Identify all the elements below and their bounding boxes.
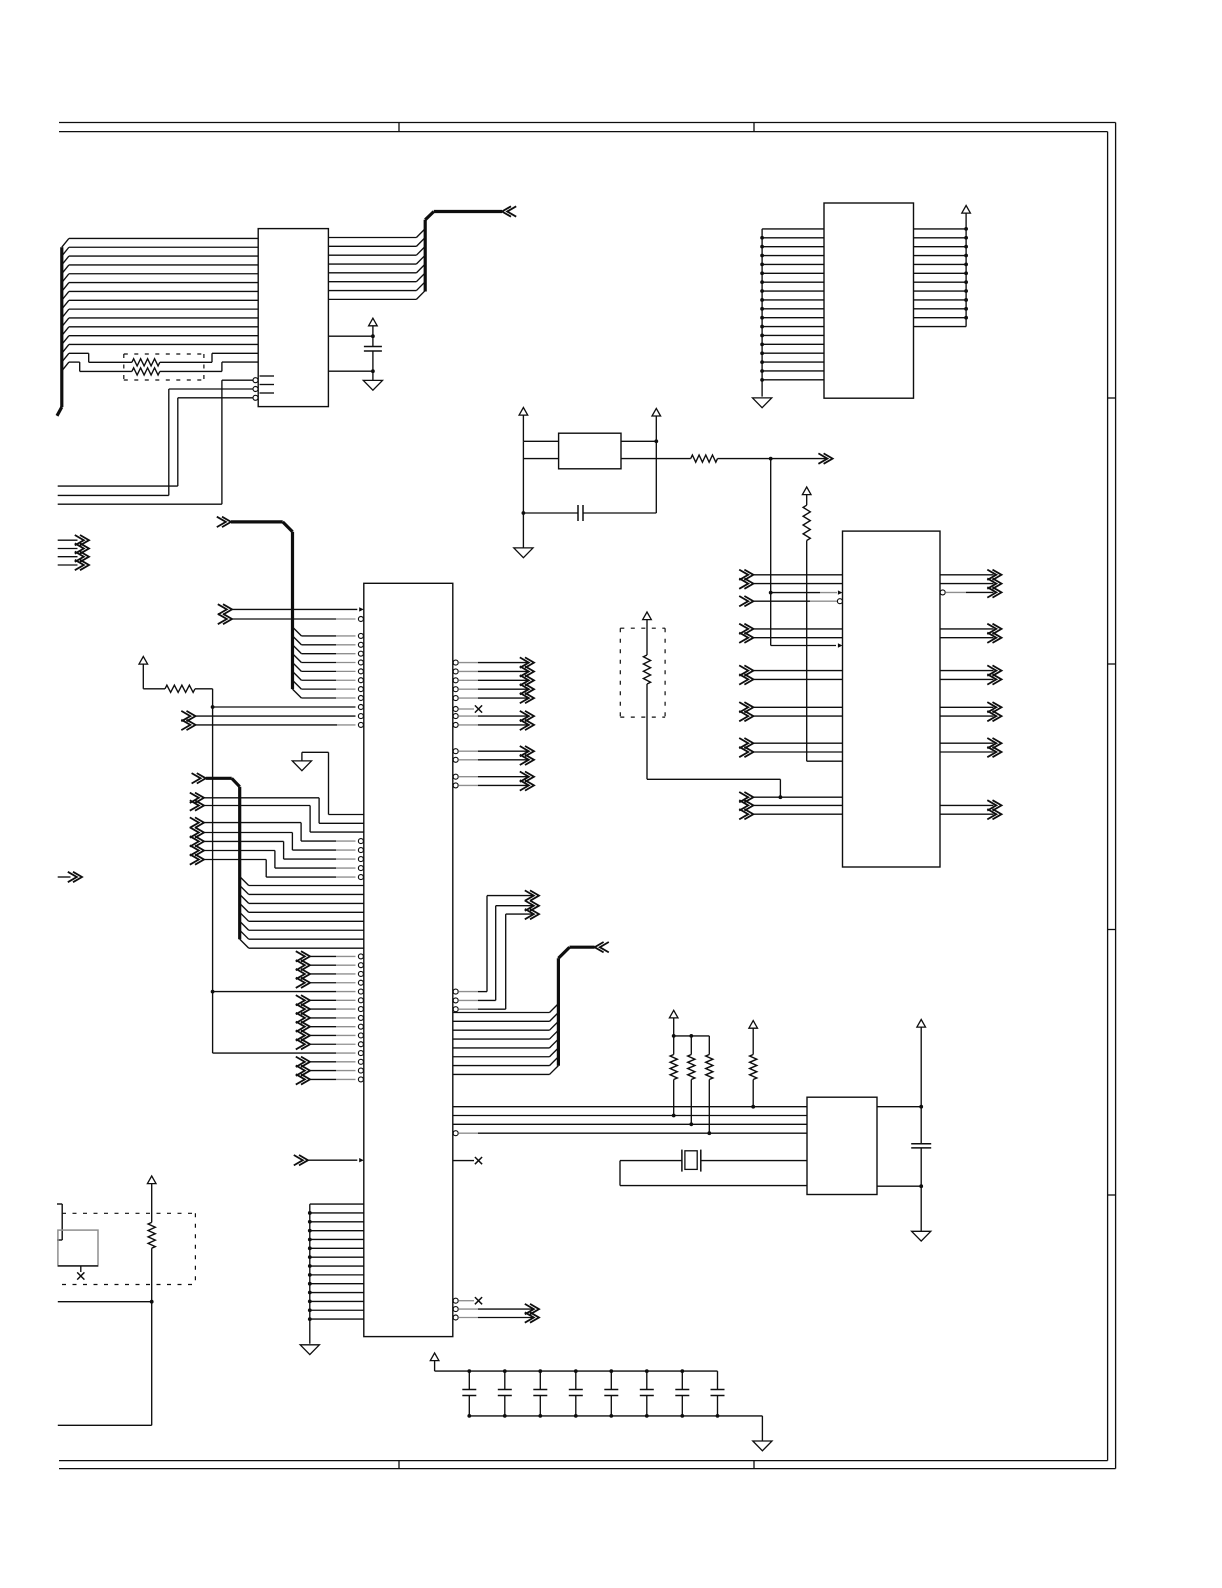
ground GND7 — [753, 1441, 772, 1451]
power arrow VP9 — [802, 487, 811, 505]
wire W10 (X1 right top to supply) — [621, 439, 658, 513]
capacitor C11 — [711, 1390, 725, 1396]
wires W20 (chevron group to U3 lower-left) — [296, 951, 364, 1084]
IC U2 — [824, 203, 914, 398]
capacitor C3 — [911, 1144, 931, 1148]
power arrow VP2 — [962, 206, 971, 214]
ground GND2 — [753, 398, 772, 408]
wire W40 (R10 to U4 pin line) — [647, 684, 780, 797]
ground GND5 — [300, 1345, 319, 1355]
wires W19 (staircase chevrons to U3) — [190, 793, 364, 880]
wire W16 (node down to U3 lower pins) — [211, 707, 364, 1056]
bus B3 trunk (thick) from off-page — [217, 517, 293, 689]
power arrow VP3 — [519, 408, 528, 442]
IC U1 — [258, 229, 328, 407]
resistor R8 — [750, 1055, 757, 1080]
wire W17 (chevron pair to U3) — [181, 711, 363, 730]
wires W30 (U3 bottom-right pins to chevrons) — [453, 1304, 539, 1323]
wires W23 (U3 right pins to chevrons) — [453, 657, 534, 703]
dashed outline around R1 R2 — [124, 354, 204, 380]
capacitor C6 — [533, 1390, 547, 1396]
capacitor C10 — [675, 1390, 689, 1396]
resistor R11 — [148, 1222, 155, 1248]
wire W42 (U4 right bubble pin to chevron) — [940, 587, 1001, 597]
wire W5 (U1 bubble pin C) — [58, 395, 258, 486]
capacitor C2 — [578, 505, 583, 521]
oscillator module X1 — [559, 433, 621, 469]
bus B1 (13 lines into U1 left) — [62, 238, 258, 353]
wire W9 (X1 left pins) — [522, 441, 559, 548]
resistor R7 — [706, 1055, 713, 1080]
capacitor C1 — [364, 347, 382, 352]
wire W28 (U3 to U5 bus line 3) — [453, 1122, 807, 1126]
bus B3 lines into U3 — [293, 627, 364, 700]
wire W4 (U1 bubble pin B) — [58, 387, 258, 496]
resistor R6 — [688, 1055, 695, 1080]
wire W14 (chevron to U3 bubble pin) — [218, 614, 364, 624]
wire W32 (R8 leg) — [752, 1080, 754, 1107]
no-connect N4 — [77, 1266, 84, 1280]
wire W27 (U3 to U5 bus line 2) — [453, 1114, 807, 1118]
wire W21 (chevron to U3 arrow pin) — [294, 1155, 364, 1165]
wire W29 (U3 to U5 bus line 4) — [453, 1131, 807, 1136]
wire W12 (X1 output via R3) — [621, 453, 833, 463]
resistor R5 — [670, 1055, 677, 1080]
resistor R9 — [803, 505, 810, 540]
bus B2 (8 lines out of U1 right) — [328, 229, 425, 300]
resistor R2 — [132, 368, 160, 375]
wire W31 (pullup rail) — [672, 1034, 710, 1133]
IC U5 — [807, 1097, 877, 1194]
wires W24 (U3 right pins to chevrons) — [453, 711, 534, 791]
ground GND6 — [912, 1231, 931, 1241]
crystal X2 — [682, 1150, 701, 1172]
capacitor C8 — [604, 1390, 618, 1396]
U1 pin stubs — [260, 376, 275, 393]
wire W7 (U2 left pins to ground bus) — [760, 229, 824, 397]
wire W26 (U3 to U5 bus line 1) — [453, 1105, 807, 1109]
power arrow VP11 — [147, 1176, 156, 1222]
resistor R10 — [643, 655, 650, 684]
off-page chevron P2 — [58, 872, 82, 882]
bus B2 trunk (thick) with off-page chevron — [425, 206, 516, 291]
power arrow VP10 — [643, 612, 652, 655]
bus B5 trunk (thick) with off-page chevron — [558, 942, 608, 1066]
power arrow VP4 — [652, 408, 661, 441]
off-page chevrons P1 (4 stubs) — [58, 535, 89, 570]
wires W25 (U3 right staircase to chevrons) — [453, 890, 539, 1011]
capacitor C9 — [640, 1390, 654, 1396]
wire W18 (ground to U3 pin) — [302, 752, 364, 814]
wire W35 (node to U4 pins) — [769, 459, 843, 648]
wire W36 (R9 to U4 pin) — [807, 541, 843, 762]
dashed outline D3 — [62, 1213, 195, 1284]
IC U3 — [364, 583, 453, 1336]
wire W3 (U1 bubble pin A) — [58, 378, 258, 505]
wire W43 (R11 to page edge) — [58, 1248, 154, 1425]
capacitor C7 — [569, 1390, 583, 1396]
wire W8 (U2 right pins to supply bus) — [914, 213, 968, 327]
ground GND3 — [514, 548, 533, 558]
bus B5 lines from U3 — [453, 1004, 559, 1075]
wire W11 (C2 branch) — [523, 512, 656, 514]
capacitor C5 — [498, 1390, 512, 1396]
no-connect N2 — [453, 1157, 482, 1164]
wire W13 (chevron to U3 arrow pin) — [218, 604, 364, 614]
power arrow VP5 — [139, 657, 148, 689]
resistor R4 — [165, 685, 195, 692]
capacitor C4 — [462, 1390, 476, 1396]
IC U4 — [843, 531, 941, 867]
wires W39 (chevron group to U4 left pins) — [739, 792, 842, 819]
dashed outline around R10 — [620, 628, 665, 717]
wire W15 (R4 node) — [143, 689, 363, 710]
power arrow VP7 — [749, 1021, 758, 1055]
resistor R1 — [132, 359, 160, 366]
wire W44 (capacitor bank rails) — [435, 1369, 763, 1441]
wire W1 (bus to U1 via R1) — [62, 353, 258, 362]
wire W38 (chevron to U4 bubble pin) — [739, 596, 842, 606]
wire W34 (U5 right pins to C3 node) — [877, 1105, 923, 1232]
wire W22 (U3 bottom-left pins to ground) — [308, 1204, 364, 1344]
ground GND1 — [363, 380, 382, 390]
module M1 (gray box) — [58, 1230, 98, 1266]
connector J1 bracket — [57, 1204, 62, 1240]
wires W37 (chevrons to U4 left pins) — [739, 570, 842, 758]
ground GND4 — [292, 761, 311, 771]
bus B1 trunk (thick) — [57, 247, 62, 416]
power arrow VP1 — [369, 318, 378, 336]
resistor R3 — [691, 455, 718, 462]
power arrow VP12 — [430, 1353, 439, 1371]
no-connect N3 — [453, 1297, 482, 1304]
wire W33 (crystal line) — [620, 1161, 807, 1186]
wires W41 (U4 right pins to chevrons) — [940, 570, 1002, 820]
wire W6 (U1 pins to C1 node) — [328, 334, 374, 380]
bus B4 lines into U3 — [240, 877, 364, 949]
power arrow VP8 — [917, 1020, 926, 1107]
no-connect N1 — [453, 705, 482, 712]
bus B4 trunk (thick) from off-page — [192, 773, 240, 939]
power arrow VP6 — [669, 1010, 678, 1036]
wire W2 (bus to U1 via R2) — [62, 362, 258, 371]
